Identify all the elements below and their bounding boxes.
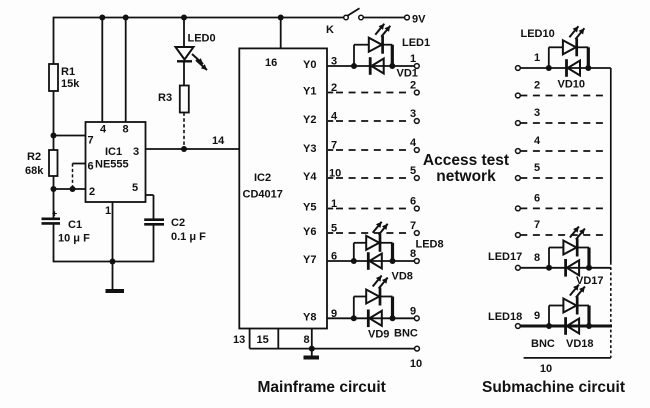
wire pin 1 down	[112, 202, 114, 262]
pin label Y1	[303, 86, 316, 98]
pin number 10 of Y4	[329, 168, 341, 180]
node R3 bottom junction	[181, 146, 187, 152]
svg-text:4: 4	[410, 137, 417, 149]
terminal 2 mainframe	[410, 80, 419, 95]
svg-text:15k: 15k	[61, 78, 80, 90]
caption Mainframe circuit	[258, 379, 386, 396]
svg-text:5: 5	[534, 162, 540, 174]
svg-text:LED18: LED18	[488, 311, 522, 323]
svg-text:NE555: NE555	[95, 159, 129, 171]
label VD17	[576, 275, 604, 287]
svg-text:10 μ F: 10 μ F	[58, 233, 90, 245]
op-amp U1 IC1 NE555 body	[86, 122, 146, 202]
pin number 9 of Y8	[331, 308, 337, 320]
pin number 7 of Y3	[331, 140, 337, 152]
resistor R1	[49, 64, 80, 91]
svg-text:Y6: Y6	[303, 226, 316, 238]
svg-text:network: network	[436, 168, 496, 185]
svg-text:68k: 68k	[25, 165, 44, 177]
wire submachine row 5	[520, 177, 607, 179]
wire pin 4 to rail	[99, 15, 105, 123]
switch K	[326, 8, 363, 36]
svg-text:LED17: LED17	[488, 251, 522, 263]
svg-text:BNC: BNC	[394, 328, 418, 340]
svg-text:14: 14	[212, 135, 225, 147]
svg-text:Y8: Y8	[303, 312, 316, 324]
wire output row 7 (Y6)	[328, 232, 412, 234]
caption Submachine circuit	[482, 379, 625, 396]
terminal 5 mainframe	[410, 165, 419, 180]
svg-text:Mainframe circuit: Mainframe circuit	[258, 379, 386, 396]
pin 16 label	[265, 57, 277, 69]
wire top supply rail	[54, 17, 346, 19]
wire submachine bottom	[524, 358, 611, 375]
svg-text:LED8: LED8	[416, 239, 444, 251]
svg-text:7: 7	[534, 219, 540, 231]
wire pin 2	[51, 186, 86, 192]
wire switch to 9V	[363, 17, 404, 19]
wire output row 6 (Y5)	[328, 208, 412, 210]
svg-text:3: 3	[133, 146, 139, 158]
terminal 7 submachine	[516, 219, 541, 237]
svg-text:0.1 μ F: 0.1 μ F	[171, 231, 206, 243]
svg-text:13: 13	[233, 334, 245, 346]
svg-text:VD9: VD9	[368, 329, 389, 341]
svg-text:7: 7	[88, 135, 94, 147]
wire submachine row 9	[520, 325, 612, 328]
svg-text:2: 2	[410, 80, 416, 92]
terminal 2 submachine	[516, 80, 541, 98]
label BNC submachine	[531, 338, 555, 350]
wire submachine row 6	[520, 207, 607, 209]
pin 3 label	[133, 146, 139, 158]
wire left vertical branch	[53, 17, 55, 263]
label VD18	[566, 338, 594, 350]
wire pin 8 to rail	[123, 15, 129, 123]
terminal 9 submachine	[516, 310, 541, 328]
svg-text:7: 7	[410, 220, 416, 232]
svg-text:Y3: Y3	[303, 143, 316, 155]
terminal 4 submachine	[516, 135, 541, 153]
svg-text:C2: C2	[171, 217, 185, 229]
terminal 5 submachine	[516, 162, 541, 180]
svg-text:+: +	[52, 209, 57, 219]
terminal 4 mainframe	[410, 137, 419, 152]
terminal 3 mainframe	[410, 108, 419, 123]
pin label Y3	[303, 143, 316, 155]
wire submachine row 3	[520, 122, 607, 124]
wire pin 7	[54, 135, 86, 137]
svg-text:4: 4	[100, 124, 107, 136]
wire submachine row 1	[520, 67, 611, 69]
svg-text:1: 1	[105, 205, 111, 217]
svg-text:IC1: IC1	[105, 146, 122, 158]
wire output row 3 (Y2)	[328, 120, 412, 122]
wire submachine row 2	[520, 95, 607, 97]
svg-text:K: K	[326, 24, 334, 36]
pin 5 label	[132, 182, 138, 194]
ground symbol left	[106, 262, 125, 292]
svg-text:10: 10	[540, 363, 552, 375]
terminal 1 mainframe	[410, 53, 419, 68]
terminal 9V	[405, 14, 427, 26]
LED LED10 / diode VD10 pair	[546, 26, 592, 77]
pin 4 label	[100, 124, 107, 136]
pin 1 label	[105, 205, 111, 217]
wire pin 6 stub	[73, 164, 86, 190]
svg-text:15: 15	[257, 334, 269, 346]
pin label Y2	[303, 114, 316, 126]
svg-text:Y0: Y0	[303, 59, 316, 71]
terminal 6 mainframe	[410, 196, 419, 211]
svg-text:BNC: BNC	[531, 338, 555, 350]
pin number 5 of Y6	[331, 223, 337, 235]
pin 6 label	[88, 161, 94, 173]
pin label Y5	[303, 202, 316, 214]
resistor R2	[25, 150, 58, 177]
svg-text:VD18: VD18	[566, 338, 594, 350]
svg-text:3: 3	[534, 107, 540, 119]
label VD10	[558, 79, 586, 91]
pin number 3 of Y0	[331, 56, 337, 68]
capacitor C1	[42, 209, 91, 245]
wire output row 2 (Y1)	[328, 92, 412, 94]
svg-text:5: 5	[410, 165, 416, 177]
svg-text:R1: R1	[61, 66, 75, 78]
label LED18	[488, 311, 522, 323]
LED LED17 / diode VD17 pair	[546, 227, 592, 277]
LED LED18 / diode VD18 pair	[546, 285, 592, 335]
pin 13 label	[233, 334, 245, 346]
IC U2 IC2 CD4017 body	[239, 48, 327, 328]
svg-text:5: 5	[132, 182, 138, 194]
svg-text:9: 9	[410, 305, 416, 317]
terminal 3 submachine	[516, 107, 541, 125]
svg-text:C1: C1	[68, 219, 82, 231]
pin 8 label	[304, 334, 310, 346]
svg-text:Y1: Y1	[303, 86, 316, 98]
terminal 10 mainframe	[410, 346, 422, 370]
pin label Y4	[303, 171, 317, 183]
wire output row 8 (Y7)	[327, 260, 414, 262]
svg-text:8: 8	[123, 124, 129, 136]
svg-text:2: 2	[534, 80, 540, 92]
svg-text:CD4017: CD4017	[243, 189, 283, 201]
wire submachine row 8	[520, 267, 611, 269]
svg-text:6: 6	[534, 192, 540, 204]
wire output row 5 (Y4)	[328, 177, 412, 179]
pin label Y6	[303, 226, 316, 238]
svg-text:16: 16	[265, 57, 277, 69]
wire pin 5 to C2	[146, 195, 154, 219]
label VD1	[397, 68, 418, 80]
label BNC mainframe	[394, 328, 418, 340]
capacitor C2	[144, 217, 206, 262]
label LED1	[402, 37, 430, 49]
wire pin 3 output to IC2 pin 14	[146, 135, 240, 149]
label LED8	[416, 239, 444, 251]
label LED17	[488, 251, 522, 263]
pin 15 box	[250, 329, 279, 349]
svg-text:IC2: IC2	[254, 172, 271, 184]
LED LED8 / diode VD8 pair	[351, 222, 396, 270]
svg-text:R3: R3	[158, 92, 172, 104]
pin number 4 of Y2	[331, 111, 338, 123]
svg-text:6: 6	[88, 161, 94, 173]
ground symbol IC2	[304, 349, 320, 358]
svg-text:Access test: Access test	[423, 152, 509, 169]
wire output row 1 (Y0)	[327, 65, 414, 67]
wire submachine right bus	[610, 68, 612, 358]
pin label Y8	[303, 312, 316, 324]
terminal 9 mainframe	[410, 305, 419, 320]
pin label Y7	[303, 254, 316, 266]
svg-text:1: 1	[534, 52, 540, 64]
svg-text:10: 10	[410, 358, 422, 370]
svg-text:2: 2	[89, 186, 95, 198]
wire output row 4 (Y3)	[328, 149, 412, 151]
svg-text:LED1: LED1	[402, 37, 430, 49]
wire pin 16 to rail	[278, 15, 284, 49]
svg-text:4: 4	[534, 135, 541, 147]
LED LED0	[176, 15, 216, 71]
svg-text:Y5: Y5	[303, 202, 316, 214]
svg-text:VD17: VD17	[576, 275, 604, 287]
pin number 1 of Y5	[331, 198, 337, 210]
pin number 6 of Y7	[331, 251, 337, 263]
pin 2 label	[89, 186, 95, 198]
svg-text:9V: 9V	[412, 14, 426, 26]
label Access test network	[423, 152, 509, 185]
pin 8 label	[123, 124, 129, 136]
svg-text:6: 6	[410, 196, 416, 208]
svg-text:1: 1	[410, 53, 416, 65]
label VD8	[392, 271, 413, 283]
svg-text:3: 3	[410, 108, 416, 120]
svg-text:VD10: VD10	[558, 79, 586, 91]
pin label Y0	[303, 59, 316, 71]
svg-text:Y7: Y7	[303, 254, 316, 266]
terminal 1 submachine	[516, 52, 541, 70]
svg-text:9: 9	[534, 310, 540, 322]
label LED10	[521, 28, 555, 40]
resistor R3	[158, 61, 189, 149]
label VD9	[368, 329, 389, 341]
pin number 2 of Y1	[331, 82, 337, 94]
svg-text:LED10: LED10	[521, 28, 555, 40]
node pin7 junction	[51, 133, 57, 139]
wire bottom rail	[54, 259, 154, 265]
svg-text:Y4: Y4	[303, 171, 317, 183]
LED LED1 / diode VD1 pair	[351, 24, 395, 75]
svg-text:8: 8	[304, 334, 310, 346]
svg-text:8: 8	[534, 252, 540, 264]
svg-text:Y2: Y2	[303, 114, 316, 126]
wire output row 9 (Y8)	[327, 317, 414, 319]
terminal 8 mainframe	[410, 248, 419, 263]
terminal 7 mainframe	[410, 220, 419, 235]
LED LED9 / diode VD9 pair	[351, 276, 396, 328]
wire pin 8 ground rail	[250, 329, 415, 352]
terminal 6 submachine	[516, 192, 541, 210]
wire submachine row 4	[520, 150, 607, 152]
svg-text:R2: R2	[27, 151, 41, 163]
svg-text:LED0: LED0	[188, 33, 216, 45]
wire submachine row 7	[520, 234, 607, 236]
svg-text:VD8: VD8	[392, 271, 413, 283]
terminal 8 submachine	[516, 252, 541, 270]
svg-text:Submachine circuit: Submachine circuit	[482, 379, 625, 396]
pin 7 label	[88, 135, 94, 147]
svg-text:VD1: VD1	[397, 68, 418, 80]
